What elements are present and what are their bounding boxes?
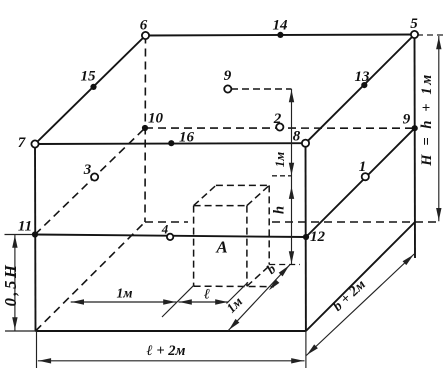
wire mid-plane front edge 11-12 xyxy=(35,235,306,238)
svg-text:7: 7 xyxy=(18,135,26,151)
label 6 xyxy=(140,18,148,34)
node 16 xyxy=(168,140,174,146)
node 9 ceiling centre xyxy=(224,85,231,92)
svg-text:15: 15 xyxy=(81,69,97,85)
node 1 xyxy=(362,173,369,180)
box A front-right edge xyxy=(246,206,248,287)
label H=h+1m xyxy=(419,72,435,167)
node 4 xyxy=(167,234,173,240)
svg-text:8: 8 xyxy=(293,129,301,145)
svg-text:10: 10 xyxy=(148,111,164,127)
label 10 xyxy=(148,111,164,127)
wire ceiling edge 7-6 xyxy=(35,36,146,145)
svg-text:9: 9 xyxy=(403,112,411,128)
label 16 xyxy=(179,130,195,146)
svg-text:b + 2м: b + 2м xyxy=(330,277,369,315)
label 14 xyxy=(273,18,289,34)
svg-text:A: A xyxy=(215,238,227,257)
dimension diagonal 1m depth and b xyxy=(228,265,289,331)
label 1m depth xyxy=(223,294,245,316)
wire floor right edge xyxy=(306,222,415,331)
svg-text:1м: 1м xyxy=(272,152,287,168)
node 15 xyxy=(90,84,96,90)
box A front-top edge xyxy=(194,205,247,207)
svg-text:5: 5 xyxy=(410,16,418,32)
wire ceiling front edge 7-8 xyxy=(35,142,306,145)
dimension line 1m and h vertical xyxy=(289,89,294,265)
label 7 xyxy=(18,135,26,151)
label 5 xyxy=(410,16,418,32)
label 2 xyxy=(273,111,282,127)
label 9 ceiling xyxy=(224,68,232,84)
node 10 xyxy=(142,125,148,131)
svg-text:6: 6 xyxy=(140,18,148,34)
extension diagonal from box A front-bottom-left corner xyxy=(162,285,194,317)
dimension line l+2m xyxy=(38,358,305,363)
wire mid-plane right edge 12-9 xyxy=(306,128,415,237)
box A bottom-right depth edge xyxy=(247,266,269,286)
box A front-left edge xyxy=(193,206,195,287)
extension line below front-bottom-left corner xyxy=(36,331,38,368)
node 11 xyxy=(32,231,38,237)
label l+2m xyxy=(147,343,186,359)
svg-text:ℓ: ℓ xyxy=(204,287,210,303)
node 5 xyxy=(411,31,418,38)
wire ceiling edge 8-5 xyxy=(306,35,415,144)
wire back-right vertical edge with extension xyxy=(414,35,417,259)
label 4 xyxy=(161,222,169,237)
wire hidden mid-plane left edge 11-10 xyxy=(35,128,145,235)
label 3 xyxy=(83,162,92,178)
dimension line H xyxy=(436,36,441,221)
node 3 xyxy=(91,173,98,180)
extension line at mid-plane level left xyxy=(5,234,36,236)
svg-text:4: 4 xyxy=(161,222,169,237)
box A top-left depth edge xyxy=(194,185,216,205)
box A top-right depth edge xyxy=(247,185,269,205)
svg-text:9: 9 xyxy=(224,68,232,84)
node 9 right xyxy=(412,125,418,131)
svg-text:H = h + 1м: H = h + 1м xyxy=(419,72,435,167)
node 13 xyxy=(361,82,367,88)
svg-text:b: b xyxy=(264,261,279,277)
dimension line 1m floor xyxy=(71,299,177,304)
svg-text:1м: 1м xyxy=(117,286,133,301)
node 8 xyxy=(302,140,309,147)
svg-text:12: 12 xyxy=(310,229,326,245)
label b xyxy=(264,261,279,277)
svg-text:14: 14 xyxy=(273,18,289,34)
dimension line b+2m xyxy=(306,254,414,356)
wire dashed leader from ceiling centre point 9 xyxy=(231,88,292,90)
label 13 xyxy=(355,69,371,85)
wire front-right vertical edge xyxy=(305,143,307,331)
svg-text:ℓ + 2м: ℓ + 2м xyxy=(147,343,186,359)
node 12 xyxy=(303,234,309,240)
label 1 xyxy=(359,159,367,175)
wire hidden mid-plane back edge 10-9 xyxy=(145,127,415,129)
wire front-left vertical edge xyxy=(34,144,37,331)
extension diagonal stub from box A front-bottom-right corner xyxy=(227,282,249,303)
label A xyxy=(215,238,227,257)
extension dashed line at ceiling level right xyxy=(417,34,444,36)
svg-text:0,5H: 0,5H xyxy=(1,263,20,307)
label b+2m xyxy=(330,277,369,315)
label 1m floor xyxy=(117,286,133,301)
dimension line l under box A xyxy=(179,299,229,304)
svg-text:11: 11 xyxy=(18,219,32,235)
label h xyxy=(272,206,288,214)
label 1m vertical xyxy=(272,152,287,168)
svg-text:1м: 1м xyxy=(223,294,245,316)
wire ceiling edge 6-5 xyxy=(146,35,415,36)
box A back-top edge xyxy=(216,184,269,186)
svg-text:h: h xyxy=(272,206,288,214)
node 7 xyxy=(31,140,38,147)
svg-text:16: 16 xyxy=(179,130,195,146)
label l xyxy=(204,287,210,303)
label 15 xyxy=(81,69,97,85)
extension of floor front edge to left xyxy=(5,330,36,332)
wire hidden floor back edge right part with extension xyxy=(272,221,441,223)
wire hidden floor left edge xyxy=(36,222,146,331)
label 0,5H xyxy=(1,263,20,307)
box A front-bottom edge with extension xyxy=(194,285,274,287)
node 14 xyxy=(277,32,283,38)
svg-text:2: 2 xyxy=(273,111,282,127)
wire hidden back-left vertical edge xyxy=(144,36,147,223)
extension line below front-bottom-right corner xyxy=(305,331,307,368)
svg-text:1: 1 xyxy=(359,159,367,175)
label 9 right xyxy=(403,112,411,128)
label 8 xyxy=(293,129,301,145)
box A back-right edge xyxy=(268,185,270,264)
label 12 xyxy=(310,229,326,245)
node 2 xyxy=(276,123,283,130)
wire hidden floor back edge left part xyxy=(145,221,188,223)
node 6 xyxy=(142,32,149,39)
wire floor front edge xyxy=(36,330,306,332)
label 11 xyxy=(18,219,32,235)
svg-text:3: 3 xyxy=(83,162,92,178)
extension line from box A back-bottom corner xyxy=(269,264,300,266)
extension dashed line at 1m level xyxy=(272,175,292,177)
svg-text:13: 13 xyxy=(355,69,371,85)
dimension line 0,5H xyxy=(12,235,17,331)
